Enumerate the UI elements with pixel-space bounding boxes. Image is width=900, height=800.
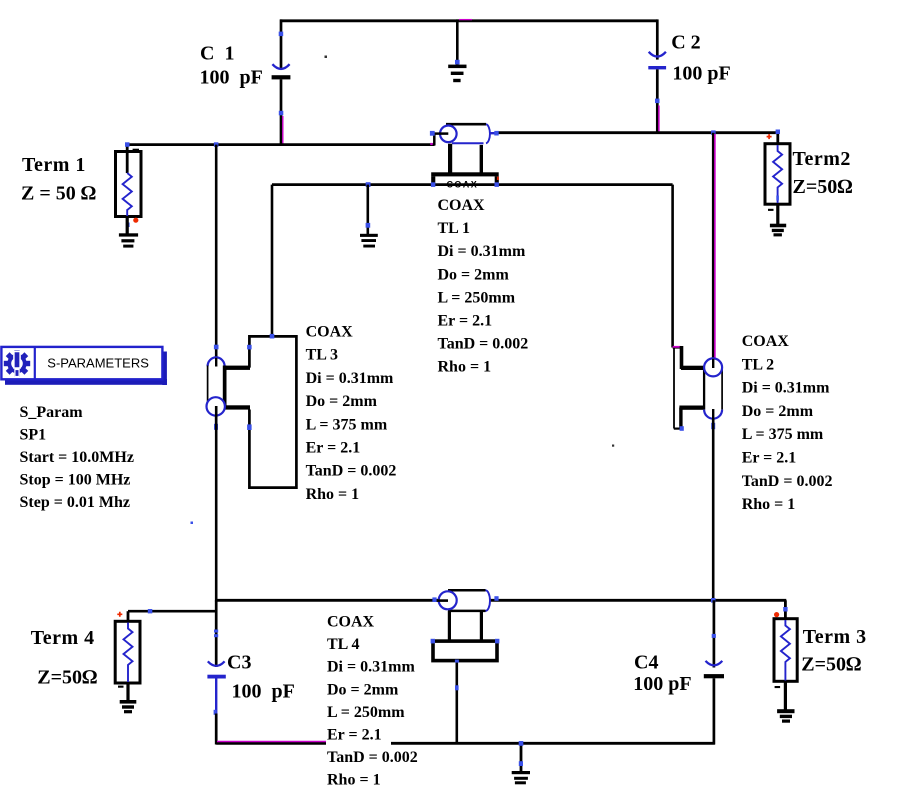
- svg-text:L = 250mm: L = 250mm: [438, 289, 516, 306]
- svg-text:Rho = 1: Rho = 1: [742, 496, 796, 513]
- TL1 labels: [438, 197, 529, 376]
- wire bottom return: [216, 742, 715, 744]
- svg-text:Rho = 1: Rho = 1: [438, 359, 492, 376]
- svg-text:Er = 2.1: Er = 2.1: [742, 450, 797, 467]
- svg-text:100 pF: 100 pF: [633, 673, 691, 695]
- svg-text:Term 1: Term 1: [22, 154, 86, 176]
- svg-text:Er = 2.1: Er = 2.1: [327, 727, 382, 744]
- svg-text:TL 1: TL 1: [438, 220, 470, 237]
- wire TL3 top pin: [214, 145, 219, 359]
- svg-text:Di = 0.31mm: Di = 0.31mm: [438, 243, 526, 260]
- svg-text:C 1: C 1: [200, 43, 234, 65]
- capacitor C1: [272, 19, 291, 145]
- Term3 labels: [801, 626, 866, 676]
- svg-text:Do = 2mm: Do = 2mm: [742, 403, 814, 420]
- C1 label: [200, 43, 263, 89]
- svg-text:Z=50Ω: Z=50Ω: [37, 667, 97, 689]
- svg-text:Term 3: Term 3: [803, 626, 867, 648]
- term Term3: [774, 600, 797, 722]
- coax TL1: [430, 124, 499, 189]
- svg-text:100 pF: 100 pF: [232, 681, 295, 703]
- svg-text:TL 4: TL 4: [327, 636, 359, 653]
- svg-text:Er = 2.1: Er = 2.1: [306, 440, 361, 457]
- svg-text:Z=50Ω: Z=50Ω: [793, 176, 853, 198]
- svg-text:SP1: SP1: [20, 427, 47, 444]
- svg-text:COAX: COAX: [742, 333, 790, 350]
- svg-text:Er = 2.1: Er = 2.1: [438, 313, 493, 330]
- wire top bus: [280, 20, 658, 21]
- svg-text:COAX: COAX: [438, 197, 486, 214]
- coax TL4: [431, 590, 500, 743]
- coax TL2: [673, 346, 723, 431]
- svg-text:Term2: Term2: [793, 148, 851, 170]
- term Term4: [115, 609, 217, 713]
- svg-text:TanD = 0.002: TanD = 0.002: [438, 336, 529, 353]
- svg-text:L = 250mm: L = 250mm: [327, 704, 405, 721]
- stray marks: [191, 56, 615, 525]
- TL4 labels: [326, 614, 418, 789]
- svg-text:100 pF: 100 pF: [200, 67, 263, 89]
- coax TL3: [207, 334, 297, 488]
- wire TL2 bottom to bus: [712, 419, 715, 602]
- TL2 labels: [742, 333, 833, 513]
- svg-text:Start = 10.0MHz: Start = 10.0MHz: [20, 449, 134, 466]
- svg-text:L = 375 mm: L = 375 mm: [306, 416, 388, 433]
- svg-text:S-PARAMETERS: S-PARAMETERS: [47, 356, 149, 371]
- svg-text:L = 375 mm: L = 375 mm: [742, 426, 824, 443]
- TL3 labels: [306, 324, 397, 503]
- svg-text:S_Param: S_Param: [20, 404, 84, 421]
- wire TL2 inner pin from top bus: [713, 133, 715, 359]
- svg-text:C4: C4: [634, 652, 658, 674]
- Term2 labels: [793, 148, 853, 198]
- s-parameters controller box: [1, 347, 167, 386]
- capacitor C2: [648, 19, 666, 133]
- svg-text:100 pF: 100 pF: [672, 63, 730, 85]
- svg-text:Do = 2mm: Do = 2mm: [306, 393, 378, 410]
- svg-text:Z = 50 Ω: Z = 50 Ω: [21, 183, 96, 205]
- svg-text:TL 3: TL 3: [306, 347, 338, 364]
- wire right bus: [496, 130, 779, 135]
- term Term1: [116, 142, 142, 247]
- svg-text:Stop = 100 MHz: Stop = 100 MHz: [20, 472, 131, 489]
- wire second bus: [272, 182, 673, 187]
- C3 label: [227, 652, 295, 703]
- svg-text:Do = 2mm: Do = 2mm: [438, 266, 510, 283]
- svg-text:COAX: COAX: [327, 614, 375, 631]
- C4 label: [633, 652, 691, 696]
- svg-text:Di = 0.31mm: Di = 0.31mm: [327, 659, 415, 676]
- svg-text:Step = 0.01 Mhz: Step = 0.01 Mhz: [20, 494, 130, 511]
- svg-text:TanD = 0.002: TanD = 0.002: [742, 473, 833, 490]
- s-parameters settings labels: [20, 404, 134, 511]
- svg-text:Di = 0.31mm: Di = 0.31mm: [742, 380, 830, 397]
- svg-text:C3: C3: [227, 652, 251, 674]
- wire TL3 bottom to bus: [215, 416, 218, 602]
- wire TL2 outer riser: [671, 185, 674, 348]
- capacitor C4: [704, 600, 724, 744]
- svg-text:TanD = 0.002: TanD = 0.002: [327, 749, 418, 766]
- svg-text:Term 4: Term 4: [31, 627, 95, 649]
- ground top center: [448, 19, 466, 82]
- svg-text:C 2: C 2: [671, 32, 700, 54]
- svg-text:TL 2: TL 2: [742, 356, 774, 373]
- svg-text:Rho = 1: Rho = 1: [306, 486, 360, 503]
- wire TL3 outer riser: [271, 185, 274, 337]
- s-parameters gear icon: [4, 350, 30, 376]
- ground under second bus: [360, 185, 378, 248]
- ground bottom: [512, 741, 530, 784]
- Term4 labels: [31, 627, 98, 689]
- capacitor C3: [207, 600, 225, 744]
- Term1 labels: [21, 154, 96, 205]
- svg-text:Rho = 1: Rho = 1: [327, 772, 381, 789]
- wire left bus: [127, 142, 435, 147]
- svg-text:Do = 2mm: Do = 2mm: [327, 681, 399, 698]
- wire bottom bus: [216, 598, 786, 603]
- svg-text:Z=50Ω: Z=50Ω: [801, 654, 861, 676]
- C2 label: [671, 32, 731, 85]
- term Term2: [765, 130, 790, 237]
- svg-text:COAX: COAX: [306, 324, 354, 341]
- svg-text:TanD = 0.002: TanD = 0.002: [306, 463, 397, 480]
- svg-text:Di = 0.31mm: Di = 0.31mm: [306, 370, 394, 387]
